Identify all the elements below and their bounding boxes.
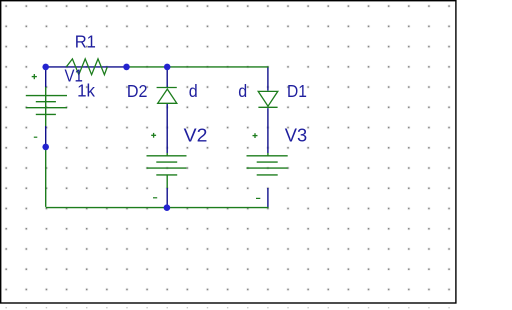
svg-text:1k: 1k (77, 82, 95, 101)
svg-text:D1: D1 (287, 82, 307, 101)
svg-text:d: d (238, 82, 247, 101)
svg-text:D2: D2 (127, 82, 148, 101)
svg-text:V3: V3 (285, 125, 307, 145)
svg-text:V2: V2 (184, 125, 208, 145)
svg-text:R1: R1 (75, 32, 96, 51)
svg-text:d: d (189, 82, 198, 101)
